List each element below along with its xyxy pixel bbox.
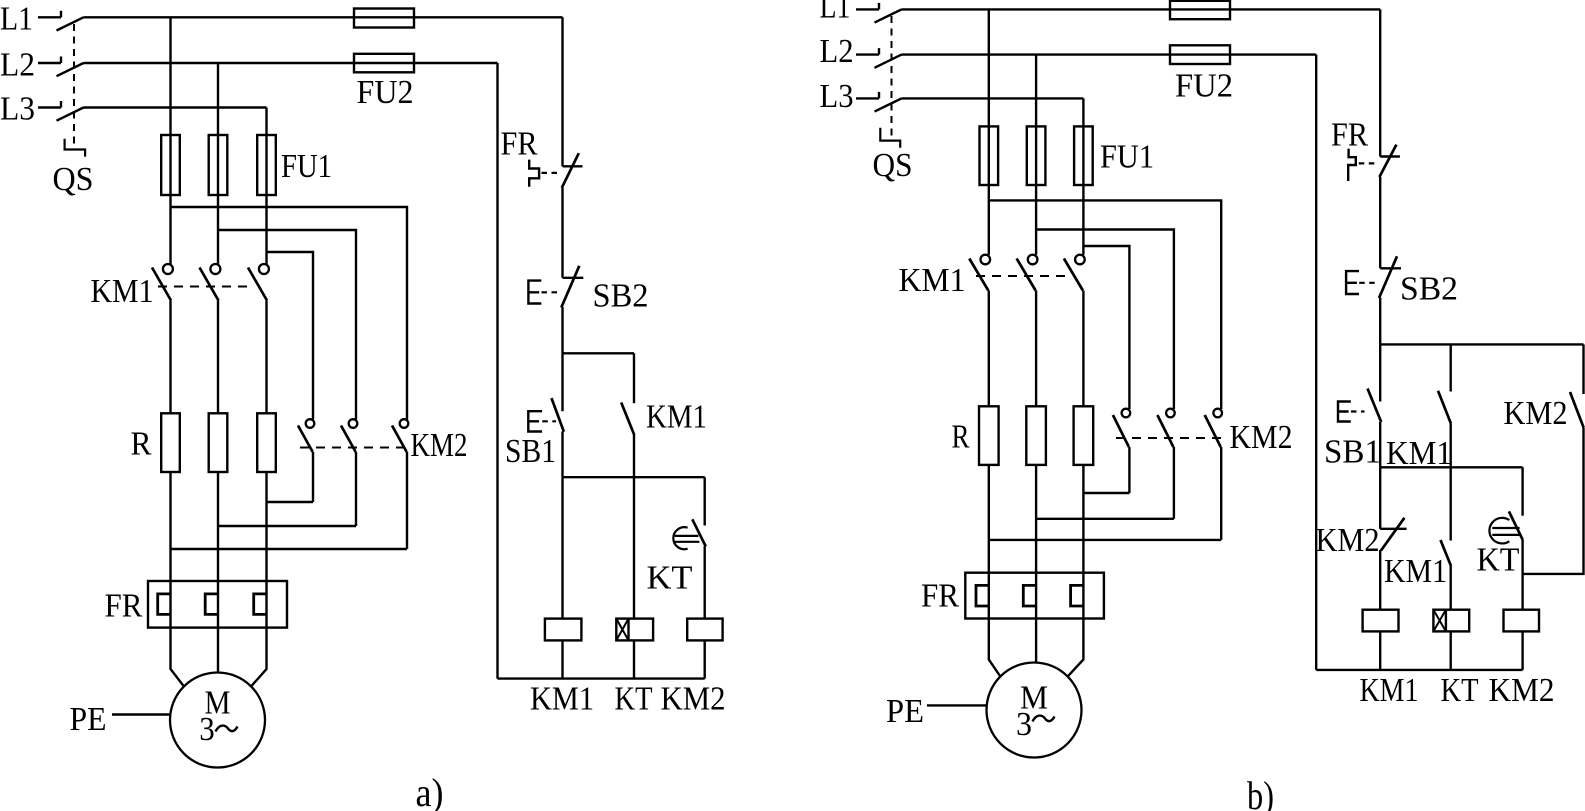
- wire PE (b): [927, 704, 987, 706]
- wire KM1 aux to node line (a): [633, 434, 635, 477]
- svg-text:a): a): [416, 770, 444, 811]
- wire KM1 pole 3 to R (b): [1082, 291, 1084, 407]
- wire L3 bus (b): [902, 97, 1084, 99]
- KM2 bypass contact pole 2 blade (a): [341, 426, 356, 453]
- QS fixed contact tick L3 (b): [878, 92, 880, 99]
- wire SB2 to branch node (b): [1379, 298, 1381, 345]
- wire node to KT contact (a): [704, 477, 706, 525]
- KM1 main contact pole 1 terminal (a): [163, 264, 173, 274]
- KT coil delay cell divider (a): [627, 619, 629, 641]
- QS linkage dashed (a): [73, 24, 75, 149]
- KM2 bypass contact pole 1 blade (a): [298, 426, 313, 453]
- wire L3 stub (b): [856, 97, 879, 99]
- svg-text:L2: L2: [0, 47, 35, 84]
- wire KM2 pole1 return to L3 drop (b): [1083, 492, 1129, 494]
- SB2 blade (a): [561, 266, 579, 308]
- wire drop L3 through FU1 (a): [265, 108, 267, 196]
- thermal relay FR heater box (a): [148, 581, 287, 628]
- wire motor lead 3 (b): [1068, 619, 1084, 677]
- svg-text:KM1: KM1: [899, 262, 966, 299]
- svg-text:KT: KT: [1477, 542, 1520, 579]
- SB1 pushbutton actuator (a): [528, 411, 542, 431]
- wire KM2 pole 3 down (b): [1220, 447, 1222, 540]
- FR control contact blade (a): [562, 153, 579, 188]
- SB1 blade (a): [552, 398, 564, 432]
- QS blade pole L2 (a): [57, 63, 84, 76]
- QS fixed contact tick L1 (b): [878, 3, 880, 9]
- SB1 pushbutton actuator (b): [1338, 402, 1351, 422]
- coil KM2 (a): [687, 619, 722, 641]
- KM1 main contact linkage dashed (b): [976, 275, 1071, 277]
- QS fixed contact tick L1 (a): [60, 11, 62, 17]
- resistor R element 3 (a): [257, 413, 276, 472]
- wire FU1-3 to KM1 contact (b): [1082, 185, 1084, 255]
- wire KT contact to KM2 coil (b): [1521, 540, 1523, 610]
- svg-text:SB1: SB1: [1324, 434, 1381, 471]
- fuse FU2 element 1 (b): [1170, 1, 1230, 19]
- SB2 pushbutton actuator (b): [1346, 271, 1359, 294]
- KM1 main contact pole 3 blade (b): [1064, 259, 1083, 291]
- wire KM2 pole 1 down (b): [1128, 447, 1130, 493]
- wire KM2 NC to KM1 coil (b): [1379, 550, 1381, 610]
- resistor R element 2 (b): [1026, 406, 1046, 465]
- KM1 main contact pole 2 terminal (b): [1028, 255, 1038, 265]
- wire branch node horizontal (a): [563, 352, 635, 354]
- QS blade pole L3 (a): [57, 108, 84, 121]
- FR control actuator bracket (b): [1348, 149, 1356, 181]
- SB1 blade (b): [1368, 389, 1382, 423]
- wire KM2 pole 3 down (a): [406, 452, 408, 549]
- wire node line (a): [563, 476, 705, 478]
- wire drop L2 through FU1 (a): [217, 63, 219, 195]
- fuse FU1 element 1 (a): [161, 135, 180, 195]
- wire KM1 coil to rail (a): [561, 640, 563, 678]
- KM1 main contact linkage dashed (a): [158, 286, 253, 288]
- svg-text:KM2: KM2: [411, 427, 468, 464]
- wire R element 2 down through FR (b): [1035, 465, 1037, 619]
- wire KM1 pole 2 to R (b): [1035, 291, 1037, 407]
- FR control contact fixed bar (b): [1380, 155, 1400, 157]
- QS fixed contact tick L2 (b): [878, 48, 880, 55]
- wire KM2 pole 1 down (a): [312, 452, 314, 502]
- KT delay chords (b): [1492, 528, 1521, 535]
- coil KM1 (b): [1363, 610, 1399, 632]
- KM2 bypass contact pole 2 terminal (b): [1166, 409, 1175, 418]
- wire L2 left rail (a): [496, 63, 498, 679]
- svg-text:SB1: SB1: [505, 433, 556, 470]
- wire KT contact to KM2 coil (a): [704, 546, 706, 618]
- fuse FU1 element 3 (a): [257, 135, 276, 195]
- KM2 bypass contact pole 3 terminal (a): [400, 419, 409, 428]
- svg-text:KM1: KM1: [1360, 672, 1419, 709]
- tilde of 3~ (a): [216, 726, 238, 732]
- wire KM1 pole 2 to R (a): [217, 301, 219, 414]
- svg-text:SB2: SB2: [593, 278, 649, 315]
- KM2 bypass contact pole 3 blade (a): [392, 426, 407, 453]
- wire FR to SB2 (b): [1379, 177, 1381, 269]
- wire L2 left rail (b): [1315, 55, 1317, 670]
- svg-text:FR: FR: [501, 126, 538, 163]
- svg-text:L1: L1: [0, 1, 33, 38]
- wire drop L3 through FU1 (b): [1082, 98, 1084, 185]
- wire KM2 pole1 return to L3 drop (a): [267, 501, 314, 503]
- wire SB1 to node line (a): [561, 432, 563, 478]
- wire tie L2 to KM2 pole2 (a): [218, 230, 356, 420]
- wire SB2 to branch node (a): [561, 307, 563, 353]
- wire PE (a): [112, 713, 170, 715]
- coil KT (a): [616, 619, 653, 641]
- wire KT coil to rail (b): [1449, 631, 1451, 670]
- svg-text:SB2: SB2: [1400, 271, 1458, 308]
- FR control actuator bracket (a): [529, 160, 539, 187]
- wire L1 drop control main (b): [1379, 9, 1381, 156]
- SB2 blade (b): [1379, 256, 1397, 298]
- fuse FU1 element 2 (b): [1027, 126, 1046, 185]
- svg-text:L3: L3: [0, 91, 35, 128]
- KM1 second NO contact blade (b): [1441, 540, 1452, 566]
- resistor R element 2 (a): [209, 413, 228, 472]
- svg-text:KM1: KM1: [530, 681, 594, 718]
- svg-text:FU1: FU1: [281, 148, 332, 185]
- thermal relay FR heater box (b): [965, 573, 1104, 619]
- wire motor lead 2 (b): [1035, 619, 1037, 663]
- SB1 linkage dashed (a): [542, 420, 556, 422]
- wire tie L3 to KM2 pole1 (a): [267, 252, 314, 420]
- svg-text:FR: FR: [921, 578, 959, 615]
- wire L2 stub (a): [38, 62, 61, 64]
- wire L1 bus (a): [84, 16, 563, 18]
- SB2 fixed bar (a): [563, 277, 584, 279]
- wire tie L1 to KM2 pole3 (a): [171, 207, 408, 420]
- wire KM1 pole 3 to R (a): [265, 301, 267, 414]
- svg-text:3: 3: [1016, 706, 1032, 743]
- wire motor lead 1 (a): [171, 628, 184, 687]
- wire L3 bus (a): [84, 106, 267, 108]
- QS blade pole L3 (b): [875, 98, 902, 111]
- svg-text:KT: KT: [1441, 672, 1479, 709]
- KM2 bypass linkage dashed (b): [1116, 437, 1227, 439]
- KT delayed contact blade (b): [1509, 511, 1523, 540]
- FR heater element 1 (b): [976, 585, 989, 606]
- KM1 main contact pole 1 blade (a): [152, 268, 171, 301]
- wire KM2 pole2 return to L2 drop (b): [1036, 518, 1174, 520]
- wire FU1-3 to KM1 contact (a): [265, 195, 267, 264]
- wire FU1-1 to KM1 contact (a): [169, 195, 171, 264]
- svg-text:QS: QS: [873, 147, 913, 184]
- svg-text:PE: PE: [70, 701, 107, 738]
- SB2 linkage dashed (b): [1359, 282, 1375, 284]
- wire R element 2 down through FR (a): [217, 472, 219, 628]
- KM1 aux contact blade (b): [1438, 391, 1451, 424]
- SB1 linkage dashed (b): [1351, 410, 1365, 412]
- wire branch to KM1 aux (a): [633, 353, 635, 403]
- KM2 bypass linkage dashed (a): [300, 447, 409, 449]
- coil KT (b): [1433, 610, 1469, 632]
- fuse FU2 element 1 (a): [354, 9, 414, 28]
- motor M 3~ (b): [987, 663, 1082, 758]
- svg-text:PE: PE: [886, 693, 924, 730]
- tilde of 3~ (b): [1033, 716, 1055, 722]
- wire L2 bus (b): [902, 53, 1317, 55]
- KM2 aux contact blade (b): [1570, 392, 1584, 428]
- KM2 bypass contact pole 3 blade (b): [1205, 415, 1221, 447]
- svg-text:FU1: FU1: [1100, 139, 1154, 176]
- wire KM2 pole3 return to L1 drop (a): [171, 548, 408, 550]
- wire KM2 pole2 return to L2 drop (a): [218, 525, 356, 527]
- wire L1 drop control main (a): [561, 17, 563, 166]
- wire motor lead 3 (a): [251, 628, 266, 687]
- wire KM1 coil to rail (b): [1379, 631, 1381, 670]
- wire tie L2 to KM2 pole2 (b): [1036, 230, 1174, 410]
- KT coil delay cell divider (b): [1445, 610, 1447, 632]
- wire FR to SB2 (a): [561, 188, 563, 278]
- resistor R element 1 (b): [979, 406, 999, 465]
- wire FU1-2 to KM1 contact (a): [217, 195, 219, 264]
- KM2 bypass contact pole 1 blade (b): [1113, 415, 1129, 447]
- KT delay arc (b): [1489, 518, 1509, 544]
- wire node line (b): [1380, 466, 1522, 468]
- FR heater element 1 (a): [158, 594, 171, 615]
- wire FU1-1 to KM1 contact (b): [988, 185, 990, 255]
- KM2 NC contact fixed bar (b): [1380, 528, 1406, 530]
- svg-text:L2: L2: [820, 33, 854, 70]
- coil KM1 (a): [545, 619, 582, 641]
- KM1 main contact pole 3 terminal (a): [259, 264, 269, 274]
- FR control contact fixed bar (a): [563, 165, 583, 167]
- resistor R element 1 (a): [161, 413, 180, 472]
- QS fixed contact tick L2 (a): [60, 57, 62, 64]
- QS blade pole L2 (b): [875, 55, 902, 68]
- KM1 main contact pole 3 terminal (b): [1075, 255, 1085, 265]
- wire branch to KM1 aux (b): [1449, 344, 1451, 391]
- wire KM2 pole3 return to L1 drop (b): [989, 539, 1221, 541]
- svg-text:L3: L3: [820, 78, 854, 115]
- wire KM2 coil to rail (b): [1521, 631, 1523, 670]
- wire L3 stub (a): [38, 106, 61, 108]
- KM1 main contact pole 1 blade (b): [969, 259, 988, 291]
- FR control contact blade (b): [1379, 145, 1396, 177]
- svg-text:KM1: KM1: [646, 399, 707, 436]
- SB2 pushbutton actuator (a): [528, 281, 541, 304]
- motor M 3~ (a): [170, 673, 265, 768]
- svg-text:KM2: KM2: [661, 681, 726, 718]
- wire KM2 aux to KT node (b): [1523, 428, 1584, 574]
- QS fixed contact tick L3 (a): [60, 101, 62, 108]
- coil KM2 (b): [1504, 610, 1540, 632]
- KM2 bypass contact pole 2 terminal (a): [349, 419, 358, 428]
- FR control linkage dashed (a): [542, 172, 562, 174]
- wire drop L2 through FU1 (b): [1035, 55, 1037, 185]
- KT coil delay cell X (b): [1433, 610, 1446, 632]
- wire drop L1 through FU1 (a): [169, 17, 171, 195]
- svg-text:b): b): [1247, 773, 1274, 811]
- svg-text:3: 3: [199, 711, 215, 748]
- fuse FU1 element 3 (b): [1074, 126, 1093, 185]
- KT delay chords (a): [675, 536, 700, 542]
- KT coil delay cell X (a): [616, 619, 628, 641]
- wire drop L1 through FU1 (b): [988, 9, 990, 185]
- KM1 main contact pole 2 terminal (a): [210, 264, 220, 274]
- wire motor lead 1 (b): [989, 619, 1001, 677]
- QS linkage dashed (b): [891, 16, 893, 140]
- wire R element 3 down through FR (a): [265, 472, 267, 628]
- SB2 fixed bar (b): [1380, 267, 1401, 269]
- QS blade pole L1 (b): [875, 9, 902, 22]
- svg-text:FR: FR: [1331, 117, 1368, 154]
- svg-text:KT: KT: [615, 681, 653, 718]
- wire KM2 aux branch drop (b): [1582, 344, 1584, 394]
- wire node to KT coil (a): [633, 477, 635, 618]
- fuse FU1 element 1 (b): [980, 126, 999, 185]
- svg-text:KM2: KM2: [1489, 672, 1555, 709]
- KT delayed contact blade (a): [692, 519, 706, 546]
- wire branch to SB1 (a): [561, 353, 563, 411]
- KM2 NC contact blade (b): [1381, 518, 1404, 551]
- svg-text:R: R: [952, 419, 970, 456]
- QS handle (a): [65, 139, 86, 157]
- svg-text:KM2: KM2: [1504, 395, 1568, 432]
- svg-text:L1: L1: [820, 0, 851, 26]
- svg-text:R: R: [131, 426, 152, 463]
- wire motor lead 2 (a): [217, 628, 219, 673]
- KM2 bypass contact pole 1 terminal (a): [306, 419, 315, 428]
- FR heater element 2 (a): [205, 594, 218, 615]
- svg-text:KT: KT: [647, 560, 693, 597]
- svg-text:FR: FR: [105, 588, 143, 625]
- KM1 aux contact blade (a): [621, 403, 634, 435]
- wire branch node horizontal (b): [1380, 343, 1583, 345]
- KM2 bypass contact pole 3 terminal (b): [1213, 409, 1222, 418]
- wire bottom rail (b): [1316, 669, 1522, 671]
- wire bottom rail (a): [498, 677, 705, 679]
- wire node to KM2 NC contact (b): [1379, 467, 1381, 529]
- KM1 main contact pole 1 terminal (b): [981, 255, 991, 265]
- FR control linkage dashed (b): [1359, 162, 1379, 164]
- wire L2 stub (b): [856, 53, 879, 55]
- wire KM2 coil to rail (a): [704, 640, 706, 678]
- wire KM1 pole 1 to R (b): [988, 291, 990, 407]
- QS blade pole L1 (a): [57, 17, 84, 30]
- KM1 main contact pole 3 blade (a): [248, 268, 267, 301]
- wire R element 1 down through FR (a): [169, 472, 171, 628]
- wire node to KM1 coil (a): [561, 477, 563, 618]
- SB2 linkage dashed (a): [542, 291, 558, 293]
- KM2 bypass contact pole 2 blade (b): [1157, 415, 1173, 447]
- QS handle (b): [880, 128, 900, 148]
- wire node to KM1 second contact (b): [1449, 467, 1451, 540]
- wire R element 3 down through FR (b): [1082, 465, 1084, 619]
- svg-text:KM2: KM2: [1230, 419, 1293, 456]
- KM1 main contact pole 2 blade (a): [200, 268, 219, 301]
- wire L1 stub (a): [38, 16, 61, 18]
- wire tie L3 to KM2 pole1 (b): [1083, 246, 1129, 409]
- resistor R element 3 (b): [1074, 406, 1094, 465]
- fuse FU1 element 2 (a): [209, 135, 228, 195]
- KM2 bypass contact pole 1 terminal (b): [1122, 409, 1131, 418]
- FR heater element 3 (b): [1071, 585, 1084, 606]
- wire L1 bus (b): [902, 8, 1381, 10]
- wire SB1 to node line (b): [1379, 422, 1381, 467]
- wire KM2 pole 2 down (a): [355, 452, 357, 526]
- wire KT coil to rail (a): [633, 640, 635, 678]
- svg-text:KM1: KM1: [91, 273, 154, 310]
- wire tie L1 to KM2 pole3 (b): [989, 200, 1221, 409]
- svg-text:FU2: FU2: [1175, 68, 1233, 105]
- wire KM2 pole 2 down (b): [1173, 447, 1175, 519]
- wire KM1 second contact to KT coil (b): [1449, 566, 1451, 610]
- fuse FU2 element 2 (b): [1170, 45, 1230, 64]
- svg-text:QS: QS: [53, 161, 94, 198]
- wire node to KT contact (b): [1521, 467, 1523, 515]
- wire L2 bus (a): [84, 62, 498, 64]
- FR heater element 3 (a): [254, 594, 267, 615]
- svg-text:KM1: KM1: [1384, 553, 1447, 590]
- wire branch to SB1 (b): [1379, 344, 1381, 401]
- wire L1 stub (b): [856, 8, 879, 10]
- svg-text:KM2: KM2: [1316, 522, 1380, 559]
- KM1 main contact pole 2 blade (b): [1017, 259, 1036, 291]
- wire KM1 pole 1 to R (a): [169, 301, 171, 414]
- svg-text:FU2: FU2: [357, 74, 414, 111]
- wire R element 1 down through FR (b): [988, 465, 990, 619]
- fuse FU2 element 2 (a): [354, 54, 414, 73]
- wire FU1-2 to KM1 contact (b): [1035, 185, 1037, 255]
- FR heater element 2 (b): [1023, 585, 1036, 606]
- wire KM1 aux to node line (b): [1449, 424, 1451, 468]
- KT delay arc (a): [673, 527, 687, 549]
